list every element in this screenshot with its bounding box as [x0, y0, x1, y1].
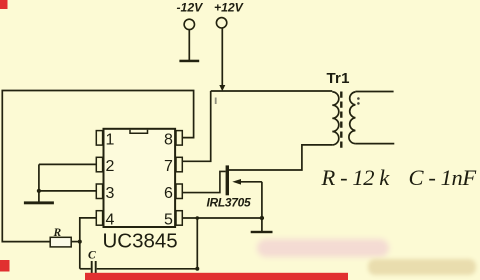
svg-text:7: 7: [164, 158, 173, 175]
svg-text:IRL3705: IRL3705: [207, 196, 252, 210]
wire: pin6 to MOSFET gate: [182, 171, 225, 192]
svg-text:6: 6: [164, 185, 173, 202]
node: junction riser / pin5 wire: [196, 216, 200, 220]
svg-text:R: R: [53, 227, 62, 239]
svg-text:C - 1nF: C - 1nF: [409, 165, 477, 190]
transformer Tr1 secondary winding: [349, 92, 355, 144]
svg-text:R - 12 k: R - 12 k: [321, 165, 391, 190]
wire: -12V drop: [188, 30, 190, 60]
transistor Q1 IRL3705 gate bar: [226, 165, 229, 195]
transformer Tr1 primary winding: [332, 92, 339, 145]
wire: secondary bottom lead: [355, 143, 394, 145]
wire: bottom rail right segment: [97, 268, 198, 270]
transistor source arrow: [232, 179, 241, 185]
svg-text:3: 3: [106, 185, 115, 202]
op-amp U1 UC3845 body: [104, 129, 176, 227]
pin 4 box: [96, 211, 102, 226]
wire: ground bus vertical: [38, 164, 40, 201]
watermark pink blob: [257, 239, 389, 257]
svg-text:1: 1: [106, 131, 115, 148]
terminal +12V circle: [216, 18, 226, 28]
wire: riser from bottom rail to pin5 wire: [196, 218, 198, 269]
svg-text:5: 5: [164, 212, 173, 229]
watermark tan blob: [368, 259, 476, 275]
resistor R body: [50, 237, 71, 247]
red watermark bottom-left: [0, 260, 10, 272]
capacitor C plates: [92, 261, 96, 279]
red watermark top-left: [0, 0, 8, 9]
wire: pin5 to source/ground node: [182, 217, 262, 219]
wire: pin4 left then down to bottom rail: [80, 218, 97, 269]
wire: pin3 to ground bus: [39, 190, 97, 192]
pin 8 box: [176, 131, 182, 146]
pin 7 box: [176, 157, 182, 172]
node: junction bottom rail / riser: [195, 267, 199, 271]
node: junction pin3 wire / ground bus: [37, 189, 41, 193]
wire: +12V drop with arrowhead: [221, 28, 223, 86]
svg-text:UC3845: UC3845: [103, 229, 178, 252]
ground (pins 2,3): [24, 201, 54, 204]
wire: secondary top lead: [355, 91, 393, 93]
wire: source to ground drop: [240, 181, 262, 183]
pin 2 box: [96, 157, 102, 172]
svg-text:+12V: +12V: [214, 1, 244, 15]
pin 5 box: [176, 211, 182, 226]
terminal -12V circle: [184, 19, 194, 29]
wire: R to pin4 node: [71, 241, 80, 243]
polarity dots: [357, 97, 360, 100]
wire: drain to transformer primary bottom: [229, 145, 332, 170]
wire: pin7 Vcc to +12V rail: [182, 91, 210, 161]
svg-text:C: C: [88, 250, 96, 262]
svg-text:8: 8: [164, 131, 173, 148]
svg-text:2: 2: [106, 158, 115, 175]
wire: pin8 Vref loop (pin8 right, up, across top-left, down left edge, to R): [2, 91, 193, 242]
ground (-12V terminal): [179, 60, 199, 63]
svg-text:Tr1: Tr1: [327, 70, 350, 87]
stray tick mark: [215, 98, 217, 105]
pin 1 box: [96, 131, 102, 146]
pin 6 box: [176, 184, 182, 199]
red watermark bottom bar: [85, 273, 348, 280]
wire: pin2 to ground bus: [39, 163, 97, 165]
node: junction source drop / pin5 wire: [260, 216, 264, 220]
node: junction R / pin4 wire: [78, 240, 82, 244]
svg-text:-12V: -12V: [177, 1, 204, 15]
wire: +12V rail to transformer primary top: [211, 90, 333, 92]
transformer core dashed line: [340, 92, 342, 150]
pin 3 box: [96, 184, 102, 199]
wire: bottom rail left segment: [80, 268, 91, 270]
svg-text:4: 4: [106, 212, 115, 229]
IC notch: [130, 130, 148, 133]
ground (source): [251, 231, 273, 233]
